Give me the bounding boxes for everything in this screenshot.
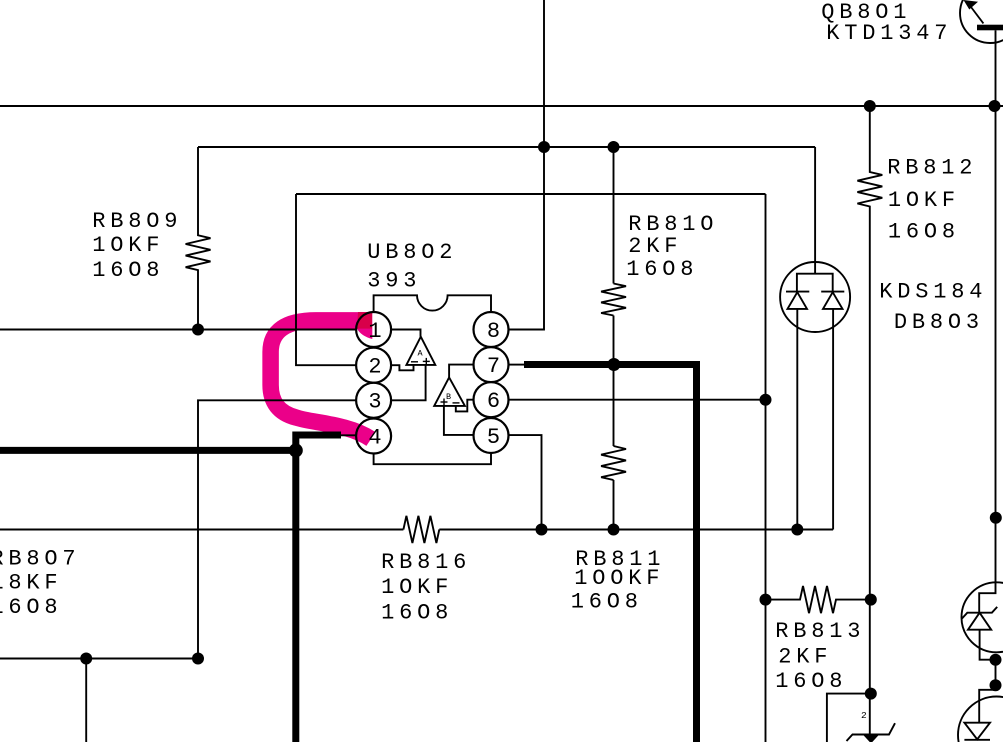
op-amp A plus/minus and letter bbox=[411, 358, 460, 406]
op-amp A plus input wire to pin3 bbox=[391, 365, 426, 400]
wire x=296 down to pin2 bbox=[296, 194, 356, 365]
wire vertical x=544 from top to pin8 net bbox=[509, 0, 544, 330]
wire KDS184 right anode lead bbox=[832, 309, 834, 530]
resistor RB810 bbox=[601, 284, 626, 316]
node dot (995.5,659.7) bbox=[990, 654, 1002, 666]
op-amp B plus sign bbox=[441, 401, 448, 403]
svg-text:16O8: 16O8 bbox=[92, 258, 164, 283]
highlighter annotation stroke bbox=[271, 320, 372, 439]
wire RB816 net left part bbox=[0, 529, 403, 531]
svg-text:8: 8 bbox=[487, 319, 500, 344]
node dot (994.5,106) bbox=[989, 100, 1001, 112]
op-amp A minus input jog from pin2 bbox=[391, 365, 414, 370]
op-amp A output wire bbox=[391, 330, 421, 337]
svg-text:RB813: RB813 bbox=[775, 619, 865, 644]
diode KDS184 left triangle bbox=[788, 292, 808, 309]
diode KDS184 left cathode bar bbox=[786, 291, 809, 293]
wire vertical x=765.5 bbox=[765, 194, 767, 742]
svg-text:A: A bbox=[418, 349, 424, 359]
svg-text:RB8O7: RB8O7 bbox=[0, 547, 80, 572]
node dot (295.8,450.4) thick bbox=[289, 443, 303, 457]
KDS184 package circle bbox=[780, 262, 850, 332]
svg-text:3: 3 bbox=[368, 390, 381, 415]
zener DB top jog bbox=[979, 583, 995, 613]
node dot (86.2,658.5) bbox=[80, 653, 92, 665]
resistor RB809 bbox=[186, 147, 211, 330]
wire thick pin7 output L bbox=[524, 365, 697, 742]
node dot (870.8,693.6) bbox=[865, 688, 877, 700]
op-amp B minus input jog from pin6 bbox=[456, 400, 475, 412]
svg-text:7: 7 bbox=[487, 354, 500, 379]
wire RB811 bottom lead bbox=[613, 480, 615, 530]
transistor QB801 emitter line bbox=[971, 7, 983, 23]
node dot (541.5,529.5) bbox=[536, 524, 548, 536]
svg-text:16O8: 16O8 bbox=[381, 601, 453, 626]
wire pin5 net bbox=[509, 435, 542, 529]
op-amp B minus sign bbox=[453, 402, 460, 404]
wire QB801 collector down bbox=[995, 30, 997, 106]
svg-text:1OKF: 1OKF bbox=[381, 575, 453, 600]
svg-text:16O8: 16O8 bbox=[571, 589, 643, 614]
svg-text:RB812: RB812 bbox=[887, 156, 977, 181]
wire jog into bottom diode bbox=[979, 690, 995, 723]
pin 8 circle bbox=[474, 312, 509, 347]
node dot (995.8,517.8) bbox=[990, 512, 1002, 524]
node dot (765.5,599.6) bbox=[760, 594, 772, 606]
wire RB812/RB813 vertical lower bbox=[869, 600, 871, 735]
IC UB802 body with notch bbox=[374, 295, 491, 464]
svg-text:5: 5 bbox=[487, 425, 500, 450]
wire pin7 thin stub bbox=[509, 364, 525, 366]
svg-text:2: 2 bbox=[861, 710, 867, 721]
diode D2 triangle bbox=[964, 723, 990, 740]
transistor QB801 emitter arrow bbox=[964, 0, 979, 10]
svg-text:1OKF: 1OKF bbox=[888, 188, 960, 213]
transistor QB801 base bar bbox=[977, 25, 1003, 31]
wire branch at y=693.6 bbox=[827, 694, 871, 742]
node dot (613.5,147) bbox=[608, 141, 620, 153]
wire lower-left horizontal y=658.5 bbox=[0, 658, 198, 660]
zener D1 triangle bbox=[968, 613, 991, 630]
wire thick horizontal y=450.4 bbox=[0, 447, 296, 454]
node dot (544,147) bbox=[538, 141, 550, 153]
node dot (869.8,106) bbox=[864, 100, 876, 112]
pin 5 circle bbox=[474, 418, 509, 453]
svg-text:393: 393 bbox=[367, 269, 421, 294]
node dot (765.5,399.8) bbox=[760, 394, 772, 406]
wire right edge vertical bbox=[995, 106, 997, 583]
zener D1 circle bbox=[962, 582, 1003, 652]
op-amp B triangle bbox=[434, 377, 465, 406]
wire KDS184 cathode lead bbox=[814, 147, 816, 274]
node dot (613.9,364.5) thick bbox=[607, 358, 620, 371]
diode KDS184 right triangle bbox=[823, 292, 843, 309]
op-amp A minus sign bbox=[411, 361, 418, 363]
diode KDS184 right cathode bar bbox=[821, 291, 844, 293]
wire RB810 to thick node bbox=[613, 316, 615, 365]
node dot (613.5,529.5) bbox=[608, 524, 620, 536]
wire pin1 net horizontal y=329.5 bbox=[0, 329, 356, 331]
pin 6 circle bbox=[474, 382, 509, 417]
node dot (870.8,599.6) bbox=[865, 594, 877, 606]
pin 2 circle bbox=[356, 348, 391, 383]
wire pin6 net y=399.7 bbox=[509, 399, 765, 401]
wire zener D1 bottom jog bbox=[980, 630, 996, 660]
thyristor D bar with ticks bbox=[847, 723, 896, 741]
svg-text:2KF: 2KF bbox=[628, 234, 682, 259]
diode D2 circle bbox=[958, 697, 1003, 742]
wire thin stub to pin4 bbox=[341, 434, 356, 436]
resistor RB816 bbox=[403, 516, 439, 543]
svg-text:UB8O2: UB8O2 bbox=[367, 240, 457, 265]
pin 7 circle bbox=[474, 347, 509, 382]
svg-text:18KF: 18KF bbox=[0, 571, 62, 596]
op-amp B output wire to pin7 bbox=[449, 365, 474, 378]
resistor RB811 bbox=[601, 446, 626, 480]
pin numbers bbox=[368, 319, 500, 451]
wire y=194 net bbox=[296, 193, 766, 195]
wire thick vertical x=295.8 with pin4 jog bbox=[296, 435, 341, 742]
pin 3 circle bbox=[356, 383, 391, 418]
svg-text:2KF: 2KF bbox=[778, 645, 832, 670]
wire y=147 net from RB809 to KDS184 bbox=[198, 146, 815, 148]
wire RB816 net right part bbox=[439, 529, 833, 531]
thyristor filled triangle bbox=[865, 735, 878, 742]
node dot (995.5,685.2) bbox=[990, 679, 1002, 691]
wire pin3 net to lower left bbox=[198, 400, 356, 658]
pin 4 circle bbox=[356, 419, 391, 454]
svg-text:B: B bbox=[446, 392, 451, 402]
wire right vertical between dots bbox=[995, 660, 997, 690]
pin 1 circle bbox=[356, 312, 391, 347]
svg-text:16O8: 16O8 bbox=[626, 257, 698, 282]
svg-text:2: 2 bbox=[368, 355, 381, 380]
op-amp A triangle bbox=[406, 337, 435, 365]
IC pin circles bbox=[356, 312, 508, 454]
node dot (198,329.5) bbox=[192, 324, 204, 336]
svg-text:1OKF: 1OKF bbox=[92, 233, 164, 258]
highlighter annotation end blob at pin1 bbox=[357, 312, 372, 339]
svg-text:6: 6 bbox=[487, 389, 500, 414]
svg-text:RB816: RB816 bbox=[381, 550, 471, 575]
svg-text:1OOKF: 1OOKF bbox=[574, 566, 664, 591]
wire RB811 top lead bbox=[613, 365, 615, 447]
svg-text:DB8O3: DB8O3 bbox=[894, 310, 984, 335]
svg-text:16O8: 16O8 bbox=[0, 595, 62, 620]
wire RB812 vertical x=869.8 bbox=[857, 106, 882, 600]
wire KDS184 left anode lead bbox=[796, 309, 798, 530]
resistor RB813 bbox=[766, 586, 871, 613]
wire KDS184 internal bus bbox=[797, 274, 833, 293]
node dot (198,658.5) bbox=[192, 653, 204, 665]
transistor QB801 circle bbox=[960, 0, 1003, 43]
node dot (797.3,529.5) bbox=[791, 524, 803, 536]
resistor RB810 top lead bbox=[613, 147, 615, 284]
op-amp B plus input wire to pin5 bbox=[444, 406, 475, 435]
wire top horizontal net y=106 bbox=[0, 105, 1003, 107]
thick ground wires bbox=[0, 365, 697, 742]
svg-text:16O8: 16O8 bbox=[888, 220, 960, 245]
wire vertical x=86.2 bbox=[85, 659, 87, 742]
svg-text:KTD1347: KTD1347 bbox=[826, 21, 952, 46]
zener D1 bar with ticks bbox=[962, 607, 997, 619]
op-amp A plus sign bbox=[423, 360, 430, 362]
svg-text:16O8: 16O8 bbox=[775, 669, 847, 694]
svg-text:KDS184: KDS184 bbox=[879, 280, 987, 305]
diode D2 bar bbox=[964, 739, 990, 741]
svg-text:RB8O9: RB8O9 bbox=[92, 209, 182, 234]
